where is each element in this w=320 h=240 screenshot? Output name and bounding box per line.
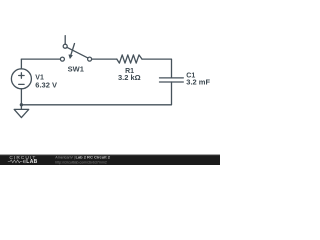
svg-text:Lab 2 RC Circuit 2: Lab 2 RC Circuit 2 (76, 155, 111, 160)
voltage source V1 (11, 69, 31, 89)
switch SW1 (60, 36, 91, 61)
wire from resistor to top-right corner (142, 59, 172, 78)
wire top rail left segment (21, 58, 60, 60)
CircuitLab logo battery tick (24, 160, 25, 163)
capacitor C1 (160, 78, 184, 82)
CircuitLab logo resistor zigzag (8, 160, 23, 163)
svg-text:3.2 mF: 3.2 mF (186, 78, 210, 87)
svg-text:LAB: LAB (26, 159, 37, 165)
ground (14, 105, 29, 118)
svg-text:SW1: SW1 (68, 64, 84, 73)
wire top-left vertical from V1 to top rail (20, 59, 22, 69)
wire bottom rail (21, 82, 171, 105)
svg-text:AmericanV |: AmericanV | (55, 156, 75, 160)
resistor R1 (117, 55, 142, 63)
footer bar (0, 155, 220, 166)
wire V1 bottom to junction (20, 89, 22, 105)
node junction V1/ground/bottom-rail (20, 103, 23, 106)
svg-text:http://circuitlab.com/c6vb37mm: http://circuitlab.com/c6vb37mm2 (55, 160, 107, 164)
svg-text:3.2 kΩ: 3.2 kΩ (118, 73, 141, 82)
svg-text:6.32 V: 6.32 V (35, 81, 57, 90)
footer bar top highlight (0, 154, 220, 157)
wire between switch and resistor (92, 58, 117, 60)
